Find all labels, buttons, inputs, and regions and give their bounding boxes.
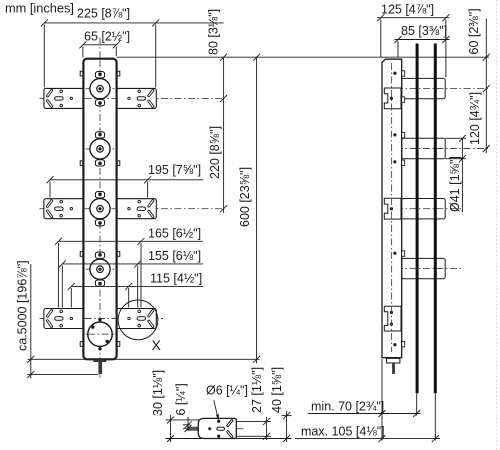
dimension 80/220 vertical line: [223, 57, 225, 213]
wire: detail center line: [183, 428, 244, 430]
side outlet pipe stub: [392, 363, 395, 374]
extension lines bottom: [381, 359, 383, 441]
svg-text:min. 70 [2¾"]: min. 70 [2¾"]: [311, 400, 384, 414]
detail circle X around crossbar 3 right plate: [118, 300, 158, 340]
svg-text:165 [6½"]: 165 [6½"]: [148, 227, 201, 241]
rail mounting tab pair 3: [80, 252, 83, 257]
dimension label Ø41 (rotated): [448, 156, 462, 212]
valve V4: [90, 252, 110, 286]
dimension 40 line: [286, 411, 288, 442]
dimension 6 line: [187, 417, 189, 431]
wire: clamp 4 center line: [396, 268, 461, 270]
dimension 125 line: [377, 17, 450, 19]
clamp 3 (pipe holder): [402, 199, 446, 219]
detail plate features: [208, 420, 232, 438]
svg-text:Ø6 [¼"]: Ø6 [¼"]: [206, 384, 248, 398]
wall bracket piece 1 (side): [384, 88, 401, 109]
rail body (front view): [83, 59, 116, 360]
dimension 60/120 vertical line: [485, 19, 487, 154]
dimension label 120 (rotated): [468, 92, 482, 145]
side outlet flange: [387, 358, 400, 363]
svg-text:155 [6⅛"]: 155 [6⅛"]: [148, 249, 201, 263]
outlet flange below rail: [94, 359, 106, 361]
dimension label 30 (rotated): [151, 370, 165, 416]
wire: crossbar center stubs inside rail: [85, 89, 116, 335]
dimension label 600 (rotated): [238, 167, 252, 227]
clamp 1 (pipe holder): [402, 78, 446, 98]
svg-text:65 [2½"]: 65 [2½"]: [84, 30, 130, 44]
svg-text:40 [1⅝"]: 40 [1⅝"]: [270, 367, 284, 413]
svg-text:max. 105 [4⅛"]: max. 105 [4⅛"]: [301, 425, 385, 439]
detail dimensions: [166, 411, 292, 442]
dimension label 6 (rotated): [174, 383, 188, 415]
wire: rail center line (front view): [99, 38, 101, 378]
svg-text:225 [8⅞"]: 225 [8⅞"]: [77, 7, 130, 21]
wire: valve V2 crosshair: [86, 148, 115, 150]
dimension min.70 line: [308, 413, 421, 415]
svg-text:6 [¼"]: 6 [¼"]: [174, 383, 188, 415]
rail mounting tab pair 4: [80, 342, 83, 347]
crossbar 1 left plate: [44, 88, 84, 108]
dimension 27 line: [266, 417, 268, 440]
leader line for Ø6: [214, 400, 218, 418]
node: alignment line top (wall top reference): [117, 56, 489, 58]
supply pipe 1 (cold): [416, 44, 419, 394]
wire: clamp 3 center line: [396, 208, 461, 210]
detail supply pipe stub: [187, 427, 200, 431]
detail plate body: [198, 418, 236, 438]
dimension label 27 (rotated): [250, 367, 264, 413]
svg-text:Ø41 [1⅝"]: Ø41 [1⅝"]: [448, 156, 462, 212]
svg-text:27 [1⅛"]: 27 [1⅛"]: [250, 367, 264, 413]
wall bracket piece 3 (side): [384, 306, 401, 331]
svg-text:30 [1⅛"]: 30 [1⅛"]: [151, 370, 165, 416]
valve V3: [90, 192, 110, 226]
svg-text:mm [inches]: mm [inches]: [5, 1, 74, 16]
dimension 85 line: [395, 39, 450, 41]
wire: clamp 2 center line: [396, 148, 490, 150]
node: lower pipe-end reference line: [28, 374, 99, 376]
crossbar 2 right plate: [116, 199, 156, 219]
dimension label 220 (rotated): [208, 126, 222, 179]
dimension 165 line: [58, 240, 203, 242]
clamp 2 (pipe holder): [402, 138, 446, 158]
dimension 115 line: [71, 285, 203, 287]
crossbar 2 left plate: [44, 199, 84, 219]
svg-text:85 [3⅜"]: 85 [3⅜"]: [401, 24, 447, 38]
valve V2: [90, 132, 110, 166]
svg-text:60 [2⅜"]: 60 [2⅜"]: [467, 8, 481, 54]
dimension 600 vertical line: [256, 57, 258, 363]
side profile body: [382, 59, 402, 358]
wire: rail center line inside rail: [99, 60, 101, 358]
wire: valve V1 crosshair: [86, 88, 115, 90]
supply pipe 2 (hot): [434, 44, 437, 394]
profile edge nubs with screws (side): [393, 71, 404, 347]
wire: profile center line (side view): [391, 63, 393, 352]
svg-text:125 [4⅞"]: 125 [4⅞"]: [381, 3, 434, 17]
svg-text:115 [4½"]: 115 [4½"]: [150, 272, 202, 286]
crossbar 3 right plate: [116, 309, 156, 329]
dimension Ø41 shelf: [445, 137, 466, 139]
svg-text:120 [4¾"]: 120 [4¾"]: [468, 92, 482, 145]
wire: valve V5 crosshair: [86, 333, 115, 335]
dimension label ca.5000 (rotated): [16, 260, 30, 351]
crossbar 3 left plate: [44, 309, 84, 329]
svg-text:220 [8⅝"]: 220 [8⅝"]: [208, 126, 222, 179]
page border dotted line (right edge): [496, 0, 498, 450]
wire: crossbar 2 center line: [40, 208, 224, 210]
dimension label 40 (rotated): [270, 367, 284, 413]
svg-text:80 [3⅛"]: 80 [3⅛"]: [207, 9, 221, 55]
svg-text:600 [23⅝"]: 600 [23⅝"]: [238, 167, 252, 227]
wire: crossbar 1 center line: [40, 97, 224, 99]
wire: profile center line overlay: [391, 63, 393, 352]
dimension 65 line: [83, 44, 116, 46]
rail mounting tab pair 2: [80, 161, 83, 166]
dimension 225 line: [44, 22, 223, 24]
dimension ca.5000 vertical line: [30, 264, 32, 379]
wire: crossbar 3 center line: [40, 318, 164, 320]
dimension label 60 (rotated): [467, 8, 481, 54]
outlet pipe stub: [98, 362, 102, 375]
node: bottom reference line (rail end): [28, 358, 260, 360]
wire: clamp 1 center line: [396, 88, 490, 90]
svg-text:195 [7⅝"]: 195 [7⅝"]: [148, 163, 201, 177]
crossbar 1 right plate: [116, 88, 156, 108]
valve V5 (bottom large): [88, 318, 112, 350]
dimension max.105 line: [295, 438, 440, 440]
dimension label 80 (rotated): [207, 9, 221, 55]
valve V1: [90, 72, 110, 106]
dimension 155 line: [62, 263, 203, 265]
svg-text:ca.5000 [196⅞"]: ca.5000 [196⅞"]: [16, 260, 30, 351]
clamp 4 (pipe holder): [402, 258, 446, 278]
dimension 30 line: [170, 415, 172, 442]
wall bracket piece 2 (side): [384, 198, 401, 219]
rail mounting tab pair 1: [80, 71, 83, 76]
wire: valve V4 crosshair: [86, 268, 115, 270]
dimension 195 line: [50, 179, 203, 181]
svg-text:X: X: [152, 337, 162, 353]
